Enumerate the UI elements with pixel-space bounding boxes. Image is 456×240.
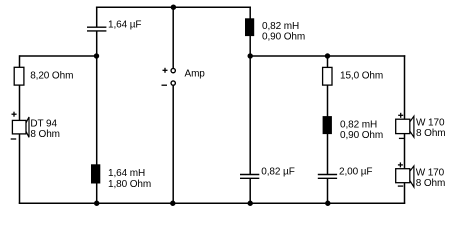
inductor L1 1,64 mH 1,80 Ohm	[91, 164, 151, 190]
resistor R2 15,0 Ohm	[323, 67, 384, 85]
junction dot: node amp top	[171, 5, 176, 10]
junction dot: node D bottom rail	[248, 201, 253, 206]
junction dot: node B at horizontal wire	[94, 53, 99, 58]
svg-text:8 Ohm: 8 Ohm	[416, 178, 446, 189]
speaker W 170 (lower)	[396, 162, 446, 189]
wire: amp rail upper segment	[172, 7, 174, 68]
svg-text:8 Ohm: 8 Ohm	[30, 129, 60, 140]
wire: left rail A vertical	[19, 55, 21, 203]
svg-text:0,82 mH: 0,82 mH	[262, 21, 299, 32]
wire: bottom rail	[19, 202, 406, 204]
wire: top rail from C1 top to L2 top	[96, 6, 251, 8]
capacitor C2 0,82 uF	[240, 167, 295, 179]
speaker DT 94	[11, 112, 60, 140]
junction dot: node D at horizontal wire	[248, 53, 253, 58]
svg-text:W 170: W 170	[416, 167, 445, 178]
junction dot: node E at horizontal wire	[325, 53, 330, 58]
wire: horizontal wire from rail D to rail F	[250, 55, 405, 57]
svg-text:DT 94: DT 94	[30, 118, 57, 129]
junction dot: node E bottom rail	[325, 201, 330, 206]
svg-text:15,0 Ohm: 15,0 Ohm	[340, 70, 383, 81]
speaker W 170 (upper)	[396, 113, 446, 139]
wire: rail B upper segment (above C1)	[96, 7, 98, 28]
wire: rail B lower segment (C1 bottom plate to bottom rail)	[96, 31, 98, 204]
svg-text:0,82 mH: 0,82 mH	[340, 119, 377, 130]
svg-text:8 Ohm: 8 Ohm	[416, 128, 446, 139]
wire: horizontal wire from node A rail to rail B	[19, 55, 96, 57]
wire: rail D upper segment (top rail through L2 down to C2 top plate)	[249, 7, 251, 175]
svg-text:Amp: Amp	[185, 69, 206, 80]
junction dot: node amp bottom rail	[170, 201, 175, 206]
wire: right rail F vertical	[404, 55, 406, 203]
resistor R1 8,20 Ohm	[14, 67, 73, 85]
inductor L3 0,82 mH 0,90 Ohm (mid right)	[323, 116, 384, 141]
svg-text:0,90 Ohm: 0,90 Ohm	[262, 32, 305, 43]
capacitor C1 1,64 uF	[87, 20, 141, 31]
op amp terminals U1 Amp	[162, 68, 206, 85]
svg-text:0,82 µF: 0,82 µF	[261, 167, 294, 178]
wire: rail E lower segment (C3 bottom plate to bottom rail)	[327, 178, 329, 203]
svg-text:1,80 Ohm: 1,80 Ohm	[108, 179, 151, 190]
svg-text:W 170: W 170	[416, 117, 445, 128]
svg-text:1,64 µF: 1,64 µF	[108, 20, 141, 31]
inductor L2 0,82 mH 0,90 Ohm (top right)	[245, 18, 305, 42]
svg-text:0,90 Ohm: 0,90 Ohm	[340, 130, 383, 141]
svg-text:1,64 mH: 1,64 mH	[108, 168, 145, 179]
wire: rail E upper segment (R2, L3 down to C3 top plate)	[327, 56, 329, 175]
junction dot: node B bottom rail	[94, 201, 99, 206]
svg-text:8,20 Ohm: 8,20 Ohm	[30, 70, 73, 81]
wire: amp rail lower segment	[172, 86, 174, 204]
svg-text:2,00 µF: 2,00 µF	[339, 167, 372, 178]
capacitor C3 2,00 uF	[318, 167, 373, 179]
wire: rail D lower segment (C2 bottom plate to bottom rail)	[249, 178, 251, 203]
